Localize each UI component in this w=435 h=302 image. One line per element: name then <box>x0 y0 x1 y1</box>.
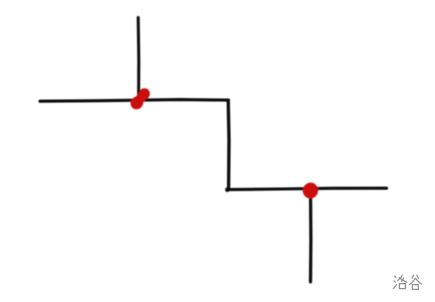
wire: corner blob at lower bend <box>225 187 230 192</box>
glyph: 洛 <box>393 275 406 289</box>
wire: lower horizontal segment <box>228 188 387 189</box>
node junction dot 2 (red) <box>303 183 318 199</box>
watermark 洛谷 (drawn as paths; no CJK font available) <box>390 271 434 293</box>
wire: upper horizontal segment <box>40 100 229 102</box>
wire: bottom vertical segment <box>309 191 313 282</box>
glyph: 谷 <box>410 275 422 289</box>
wire: top vertical segment <box>137 18 141 100</box>
wire: middle vertical segment <box>227 100 231 189</box>
node junction dot 1 (red) <box>128 86 152 112</box>
